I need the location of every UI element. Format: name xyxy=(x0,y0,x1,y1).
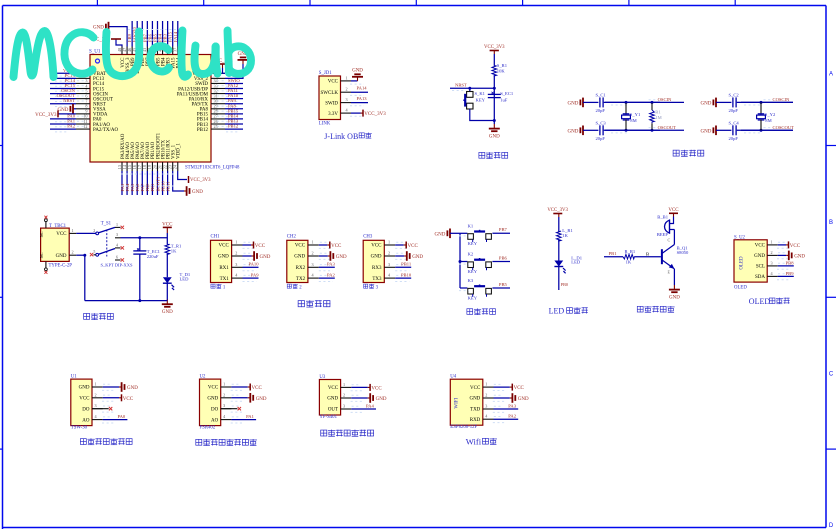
svg-text:BEEP: BEEP xyxy=(657,232,669,237)
svg-text:K3: K3 xyxy=(468,278,474,283)
svg-text:NC: NC xyxy=(39,252,44,258)
svg-text:12: 12 xyxy=(83,124,87,129)
svg-text:GND: GND xyxy=(568,129,579,134)
svg-text:PA2: PA2 xyxy=(67,124,75,129)
svg-text:TX1: TX1 xyxy=(220,277,230,282)
svg-text:220uF: 220uF xyxy=(147,254,159,259)
svg-text:2: 2 xyxy=(93,228,95,233)
svg-text:COSCOUT: COSCOUT xyxy=(773,125,795,130)
svg-text:RX1: RX1 xyxy=(219,266,229,271)
svg-text:2: 2 xyxy=(770,250,772,255)
svg-text:ESP8266-12F: ESP8266-12F xyxy=(450,425,477,430)
svg-text:C: C xyxy=(668,238,671,243)
svg-text:GND: GND xyxy=(79,386,90,391)
svg-text:CH3: CH3 xyxy=(363,235,373,240)
svg-text:GND: GND xyxy=(256,397,267,402)
svg-text:PA1: PA1 xyxy=(246,414,254,419)
svg-text:2: 2 xyxy=(71,250,73,255)
svg-text:CH1: CH1 xyxy=(211,235,221,240)
svg-text:STM32F103C8T6_LQFP48: STM32F103C8T6_LQFP48 xyxy=(185,166,240,171)
svg-text:S_K1: S_K1 xyxy=(475,91,486,96)
svg-text:KEY: KEY xyxy=(468,296,478,301)
svg-text:S_JD1: S_JD1 xyxy=(319,71,332,76)
svg-text:B_B1: B_B1 xyxy=(657,215,668,220)
svg-text:S_Y1: S_Y1 xyxy=(630,112,641,117)
svg-text:3: 3 xyxy=(345,97,347,102)
svg-text:S_KPT DIP-XXS: S_KPT DIP-XXS xyxy=(101,263,134,268)
svg-text:GND: GND xyxy=(489,135,500,140)
svg-text:PB12: PB12 xyxy=(228,124,239,129)
svg-text:VCC: VCC xyxy=(56,232,67,237)
svg-text:VCC: VCC xyxy=(514,386,525,391)
svg-text:GND: GND xyxy=(435,232,446,237)
svg-text:GND: GND xyxy=(518,397,529,402)
svg-text:10K: 10K xyxy=(497,68,506,73)
svg-text:1K: 1K xyxy=(562,233,568,238)
svg-text:K1: K1 xyxy=(468,224,474,229)
svg-text:1: 1 xyxy=(485,382,487,387)
svg-text:PA4: PA4 xyxy=(366,403,374,408)
svg-text:1: 1 xyxy=(235,240,237,245)
svg-text:KEY: KEY xyxy=(476,98,486,103)
svg-text:20pF: 20pF xyxy=(596,136,606,141)
svg-text:PA13: PA13 xyxy=(357,96,368,101)
svg-text:3.3V: 3.3V xyxy=(328,112,338,117)
svg-text:OSCOUT: OSCOUT xyxy=(658,125,677,130)
svg-text:SWID: SWID xyxy=(325,101,338,106)
svg-text:S_Y2: S_Y2 xyxy=(765,112,776,117)
svg-text:PA2: PA2 xyxy=(508,414,516,419)
svg-text:GND: GND xyxy=(371,255,382,260)
svg-text:YF-S401: YF-S401 xyxy=(319,415,337,420)
svg-text:VCC: VCC xyxy=(371,244,382,249)
svg-text:PB8: PB8 xyxy=(786,261,795,266)
svg-text:2: 2 xyxy=(235,251,237,256)
svg-text:VCC_3V3: VCC_3V3 xyxy=(35,113,57,118)
svg-text:PA0: PA0 xyxy=(117,414,125,419)
svg-text:KEY: KEY xyxy=(468,241,478,246)
svg-text:SDA: SDA xyxy=(755,275,765,280)
svg-text:3: 3 xyxy=(116,232,118,237)
svg-text:VCC_3V3: VCC_3V3 xyxy=(190,178,211,183)
svg-text:VCC: VCC xyxy=(123,397,134,402)
svg-text:LED: LED xyxy=(571,260,581,265)
svg-text:GND: GND xyxy=(294,255,305,260)
svg-text:GND: GND xyxy=(336,255,347,260)
svg-text:TX2: TX2 xyxy=(296,277,306,282)
svg-text:2: 2 xyxy=(485,393,487,398)
svg-text:GND: GND xyxy=(207,397,218,402)
svg-text:LED: LED xyxy=(549,306,565,315)
svg-text:3: 3 xyxy=(485,404,487,409)
svg-text:1uF: 1uF xyxy=(500,97,508,102)
svg-text:1: 1 xyxy=(223,382,225,387)
svg-text:GND: GND xyxy=(352,69,363,74)
svg-text:4: 4 xyxy=(116,242,118,247)
svg-text:TXD: TXD xyxy=(470,408,481,413)
svg-text:S_U1: S_U1 xyxy=(89,50,101,55)
svg-text:GND: GND xyxy=(568,101,579,106)
svg-text:1M: 1M xyxy=(655,115,661,120)
svg-text:3: 3 xyxy=(770,260,772,265)
svg-text:VCC: VCC xyxy=(252,386,263,391)
svg-text:C: C xyxy=(829,372,834,378)
svg-text:GND: GND xyxy=(412,255,423,260)
svg-text:8M: 8M xyxy=(765,118,771,123)
svg-text:VCC: VCC xyxy=(668,208,679,213)
svg-text:3: 3 xyxy=(312,262,314,267)
svg-text:PB7: PB7 xyxy=(499,227,508,232)
svg-text:PA3: PA3 xyxy=(508,403,516,408)
svg-text:R_R1: R_R1 xyxy=(625,249,636,254)
svg-text:T_S1: T_S1 xyxy=(101,221,112,226)
svg-text:GND: GND xyxy=(162,310,173,315)
svg-text:1: 1 xyxy=(116,222,118,227)
svg-text:GND: GND xyxy=(469,397,480,402)
svg-text:VCC: VCC xyxy=(328,386,339,391)
svg-text:FSR402: FSR402 xyxy=(200,426,216,431)
svg-text:GND: GND xyxy=(192,190,203,195)
svg-text:DO: DO xyxy=(82,407,90,412)
svg-text:8M: 8M xyxy=(630,118,636,123)
svg-text:PA3: PA3 xyxy=(327,262,335,267)
svg-text:WIFI: WIFI xyxy=(454,397,459,408)
svg-text:S8050: S8050 xyxy=(677,250,689,255)
svg-text:PB1: PB1 xyxy=(609,251,618,256)
svg-text:SWCLK: SWCLK xyxy=(321,91,339,96)
svg-text:1: 1 xyxy=(71,228,73,233)
svg-text:PB12: PB12 xyxy=(197,128,209,133)
svg-text:PB9: PB9 xyxy=(786,271,795,276)
svg-text:VCC: VCC xyxy=(470,386,481,391)
svg-text:2: 2 xyxy=(223,392,225,397)
svg-text:VCC: VCC xyxy=(790,244,801,249)
svg-text:AO: AO xyxy=(82,418,90,423)
svg-text:GND: GND xyxy=(58,108,69,113)
svg-text:GND: GND xyxy=(376,397,387,402)
svg-text:RX2: RX2 xyxy=(296,266,306,271)
svg-text:S_C4: S_C4 xyxy=(729,120,740,125)
svg-text:RXD: RXD xyxy=(470,418,481,423)
svg-text:2: 2 xyxy=(343,393,345,398)
svg-text:VCC: VCC xyxy=(295,244,306,249)
svg-text:5: 5 xyxy=(93,249,95,254)
svg-text:PA2/TX/AO: PA2/TX/AO xyxy=(93,128,118,133)
svg-text:PA9: PA9 xyxy=(251,272,259,277)
svg-text:OLED: OLED xyxy=(734,285,747,290)
svg-text:2: 2 xyxy=(388,251,390,256)
svg-text:AO: AO xyxy=(211,418,219,423)
svg-text:PB0: PB0 xyxy=(561,282,568,287)
svg-text:1K: 1K xyxy=(626,259,632,264)
svg-text:VCC: VCC xyxy=(255,244,266,249)
svg-text:OSCIN: OSCIN xyxy=(658,97,672,102)
svg-text:S_C2: S_C2 xyxy=(729,92,740,97)
svg-text:1: 1 xyxy=(94,382,96,387)
svg-text:B: B xyxy=(646,252,649,257)
svg-text:1: 1 xyxy=(388,240,390,245)
svg-text:S_C3: S_C3 xyxy=(596,120,607,125)
svg-text:NRST: NRST xyxy=(455,83,467,88)
svg-text:TSW-30: TSW-30 xyxy=(71,426,88,431)
svg-text:VCC: VCC xyxy=(755,244,766,249)
svg-text:CH2: CH2 xyxy=(287,235,297,240)
svg-text:20pF: 20pF xyxy=(729,136,739,141)
svg-text:1K: 1K xyxy=(171,248,177,253)
svg-text:GND: GND xyxy=(218,255,229,260)
svg-text:GND: GND xyxy=(93,26,104,31)
svg-text:R1: R1 xyxy=(655,110,661,115)
svg-text:TX3: TX3 xyxy=(372,277,382,282)
svg-text:GND: GND xyxy=(260,255,271,260)
svg-text:3: 3 xyxy=(343,404,345,409)
svg-text:VCC: VCC xyxy=(219,244,230,249)
svg-text:GND: GND xyxy=(754,254,765,259)
svg-text:VCC: VCC xyxy=(208,386,219,391)
svg-text:PB6: PB6 xyxy=(499,255,508,260)
svg-text:2: 2 xyxy=(94,392,96,397)
svg-text:20pF: 20pF xyxy=(729,108,739,113)
svg-text:J-Link OB: J-Link OB xyxy=(324,132,358,141)
svg-text:GND: GND xyxy=(327,397,338,402)
svg-text:VCC_3V3: VCC_3V3 xyxy=(547,208,568,213)
svg-text:K2: K2 xyxy=(468,252,474,257)
svg-text:VDD_1: VDD_1 xyxy=(177,143,182,159)
svg-text:NC: NC xyxy=(39,231,44,237)
svg-text:SCL: SCL xyxy=(756,265,765,270)
svg-text:VCC_3V3: VCC_3V3 xyxy=(484,45,505,50)
svg-text:DO: DO xyxy=(211,407,219,412)
svg-text:1: 1 xyxy=(312,240,314,245)
svg-text:1: 1 xyxy=(770,239,772,244)
svg-text:PA14: PA14 xyxy=(357,86,368,91)
svg-text:OLED: OLED xyxy=(749,297,771,306)
svg-text:1: 1 xyxy=(345,75,347,80)
svg-text:D: D xyxy=(829,523,834,529)
svg-text:TYPE-C-2P: TYPE-C-2P xyxy=(49,263,73,268)
svg-text:S_R1: S_R1 xyxy=(497,63,508,68)
svg-text:OLED: OLED xyxy=(740,256,745,270)
svg-text:A: A xyxy=(829,72,833,78)
svg-text:GND: GND xyxy=(669,296,680,301)
svg-text:VCC: VCC xyxy=(79,397,90,402)
svg-text:B: B xyxy=(829,220,833,226)
svg-text:2: 2 xyxy=(312,251,314,256)
svg-text:VCC: VCC xyxy=(371,386,382,391)
svg-text:VCC_3V3: VCC_3V3 xyxy=(364,112,386,117)
svg-text:VCC: VCC xyxy=(408,244,419,249)
svg-text:PA2: PA2 xyxy=(327,272,335,277)
svg-text:3: 3 xyxy=(388,262,390,267)
svg-text:6: 6 xyxy=(116,254,118,259)
svg-text:GND: GND xyxy=(127,386,138,391)
svg-text:3: 3 xyxy=(223,403,225,408)
svg-text:NRST: NRST xyxy=(63,98,75,103)
svg-text:GND: GND xyxy=(56,254,67,259)
svg-text:Wifi: Wifi xyxy=(466,436,482,446)
svg-text:VCC: VCC xyxy=(328,80,339,85)
svg-text:20pF: 20pF xyxy=(596,108,606,113)
svg-text:PB11: PB11 xyxy=(401,262,412,267)
svg-text:S_EC1: S_EC1 xyxy=(500,91,514,96)
svg-text:GND: GND xyxy=(794,254,805,259)
svg-text:2: 2 xyxy=(345,87,347,92)
svg-text:COSCIN: COSCIN xyxy=(773,97,791,102)
svg-text:VCC: VCC xyxy=(331,244,342,249)
svg-text:1: 1 xyxy=(343,382,345,387)
svg-text:RX3: RX3 xyxy=(372,266,382,271)
svg-text:OUT: OUT xyxy=(328,408,338,413)
svg-text:GND: GND xyxy=(701,101,712,106)
svg-text:S_C1: S_C1 xyxy=(596,92,607,97)
svg-text:37: 37 xyxy=(173,48,178,52)
svg-text:LINK: LINK xyxy=(319,122,331,127)
svg-text:PB10: PB10 xyxy=(401,272,412,277)
svg-text:LED: LED xyxy=(180,276,190,281)
svg-text:3: 3 xyxy=(235,262,237,267)
svg-text:PA10: PA10 xyxy=(248,262,259,267)
svg-text:KEY: KEY xyxy=(468,269,478,274)
svg-text:PB5: PB5 xyxy=(499,282,508,287)
svg-text:3: 3 xyxy=(94,403,96,408)
svg-text:GND: GND xyxy=(701,129,712,134)
